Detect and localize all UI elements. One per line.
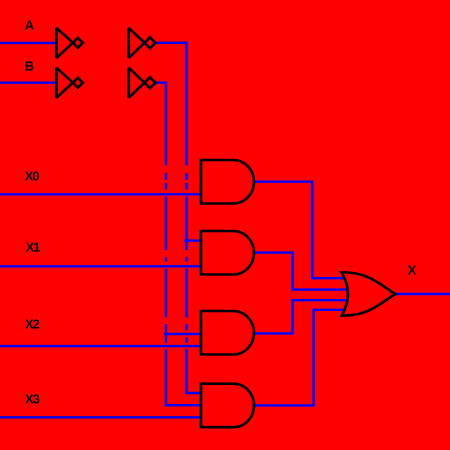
svg-text:B: B [25, 58, 34, 73]
svg-text:A: A [25, 18, 35, 33]
svg-text:X2: X2 [25, 317, 40, 332]
svg-text:X1: X1 [26, 239, 41, 254]
svg-text:X3: X3 [25, 392, 40, 407]
svg-text:X0: X0 [25, 169, 40, 184]
svg-text:X: X [408, 262, 417, 277]
